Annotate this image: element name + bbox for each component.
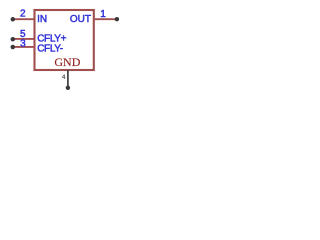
svg-text:1: 1	[100, 9, 106, 20]
svg-text:3: 3	[20, 38, 26, 49]
svg-text:CFLY-: CFLY-	[37, 44, 63, 55]
svg-text:GND: GND	[54, 55, 80, 69]
svg-text:IN: IN	[37, 14, 47, 25]
svg-text:2: 2	[20, 9, 26, 20]
svg-text:OUT: OUT	[70, 14, 91, 25]
